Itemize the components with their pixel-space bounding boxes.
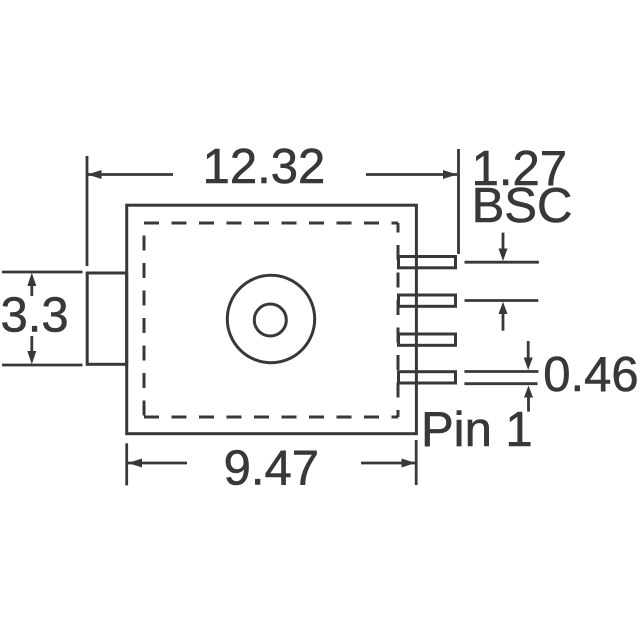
extension line pin4 top (0.46): [464, 370, 538, 373]
pin 4 (bottom lead, Pin 1): [399, 372, 456, 383]
port tab on left: [87, 273, 127, 364]
svg-text:12.32: 12.32: [203, 140, 326, 194]
svg-text:BSC: BSC: [472, 179, 573, 233]
dimension line 12.32 left segment: [88, 173, 174, 176]
arrow tail up (1.27 BSC): [502, 313, 505, 331]
pin 1 (top lead): [399, 257, 456, 268]
pin 3: [399, 334, 456, 345]
vent port outer circle: [227, 275, 314, 362]
extension line pin4 bottom (0.46): [464, 382, 537, 385]
dashed footprint outline right: [397, 223, 400, 417]
svg-text:3.3: 3.3: [1, 289, 69, 343]
svg-text:0.46: 0.46: [543, 348, 638, 402]
dimension line 9.47 right segment: [361, 462, 416, 465]
package body outline: [127, 205, 417, 434]
dimension line 12.32 right segment: [366, 173, 457, 176]
arrowhead 1.27 down: [499, 249, 508, 262]
extension line tab top (3.3): [2, 271, 83, 274]
arrowhead 0.46 up: [524, 386, 533, 398]
extension line left of 12.32: [86, 156, 89, 266]
arrowhead 3.3 up: [27, 273, 36, 286]
arrowhead 3.3 down: [27, 351, 36, 364]
arrowhead 12.32 left: [88, 170, 102, 179]
svg-text:9.47: 9.47: [224, 442, 319, 496]
extension line pin2 center (1.27 BSC): [465, 299, 539, 302]
dashed footprint outline bottom: [144, 416, 398, 419]
arrow tail up (0.46): [527, 396, 530, 412]
dashed footprint outline top: [144, 222, 398, 225]
dimension line 9.47 left segment: [128, 462, 187, 465]
vent port inner hole: [254, 304, 286, 336]
arrowhead 9.47 right: [402, 459, 416, 468]
extension line right of 12.32: [457, 149, 460, 254]
dashed footprint outline left: [143, 223, 146, 417]
pin 2: [399, 295, 456, 306]
arrow tail down (0.46): [527, 341, 530, 359]
arrow tail down (1.27 BSC): [502, 233, 505, 250]
extension line tab bottom (3.3): [2, 364, 83, 367]
extension line pin1 center (1.27 BSC): [465, 261, 539, 264]
dimension line 3.3 upper segment: [30, 283, 33, 296]
dimension line 3.3 lower segment: [30, 336, 33, 353]
arrowhead 12.32 right: [443, 170, 457, 179]
extension line right of 9.47: [415, 440, 418, 485]
arrowhead 9.47 left: [128, 459, 142, 468]
extension line left of 9.47: [125, 443, 128, 485]
svg-text:Pin 1: Pin 1: [421, 403, 533, 457]
arrowhead 0.46 down: [524, 358, 533, 371]
arrowhead 1.27 up: [499, 302, 508, 314]
